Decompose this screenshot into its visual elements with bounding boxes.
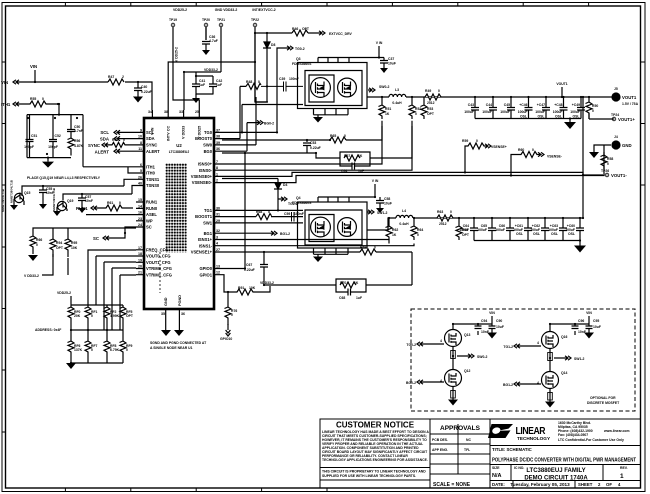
wire VSENSE1+ long xyxy=(222,251,360,253)
wire Q4 top pins to VIN bus xyxy=(318,197,375,202)
wire R66/R94/R95 top bus xyxy=(33,228,136,235)
wire BG1 row xyxy=(222,232,270,234)
resistor RF6 xyxy=(68,339,75,357)
svg-text:17: 17 xyxy=(138,246,142,250)
svg-text:0: 0 xyxy=(438,89,440,93)
svg-text:C53: C53 xyxy=(310,141,316,145)
test point TP21 xyxy=(217,18,225,27)
svg-text:C39: C39 xyxy=(279,77,285,81)
ground J4 xyxy=(589,152,599,158)
svg-text:4.7uF: 4.7uF xyxy=(209,39,218,43)
test point TP19 xyxy=(169,18,177,27)
svg-text:Q13: Q13 xyxy=(464,333,471,337)
svg-text:0: 0 xyxy=(42,97,44,101)
svg-text:TP26: TP26 xyxy=(601,169,609,173)
U2 bottom pin names (vertical) xyxy=(164,295,182,306)
svg-text:V DD33-2: V DD33-2 xyxy=(24,274,39,278)
wire TSNS lines xyxy=(124,167,136,194)
zone tick marks bottom xyxy=(65,488,327,492)
resistor R60 + arrow VSENSE- xyxy=(511,152,544,177)
svg-text:10uF: 10uF xyxy=(384,202,392,206)
ground below C40 xyxy=(133,97,143,103)
svg-text:ISNS0+: ISNS0+ xyxy=(198,162,213,167)
svg-text:PLACE Q15,Q19 NEAR L4,L3 RESPE: PLACE Q15,Q19 NEAR L4,L3 RESPECTIVELY xyxy=(27,176,101,180)
svg-text:REV.: REV. xyxy=(620,466,628,470)
svg-text:0: 0 xyxy=(532,148,534,152)
ground cap bank ch1 xyxy=(579,241,581,246)
wire Q16 drain to VIN xyxy=(550,324,575,332)
net arrow TG1-2 (opt) xyxy=(514,344,521,348)
svg-text:Q4: Q4 xyxy=(296,196,301,200)
resistor R55 xyxy=(20,101,59,107)
resistor RF5 xyxy=(120,305,127,323)
U2 exposed pad dots xyxy=(166,164,188,253)
svg-text:2512: 2512 xyxy=(427,101,435,105)
wire C41/C42 tie xyxy=(196,76,213,98)
svg-text:J5: J5 xyxy=(614,87,618,91)
svg-text:0: 0 xyxy=(374,246,376,250)
customer notice text xyxy=(322,421,429,479)
svg-text:1K: 1K xyxy=(392,233,397,237)
power block Q4 outline xyxy=(298,202,368,248)
svg-text:36: 36 xyxy=(216,147,220,151)
svg-text:BG0-2: BG0-2 xyxy=(264,122,274,126)
svg-text:1uF: 1uF xyxy=(199,83,205,87)
wire D4 feed xyxy=(222,178,278,180)
resistor R58 xyxy=(601,152,608,169)
wire R65 to R51 xyxy=(307,126,382,140)
U2 left pin stubs xyxy=(136,132,144,274)
net arrow SW0-2 xyxy=(368,88,375,92)
wire BG0 row xyxy=(222,123,256,152)
svg-text:R55: R55 xyxy=(30,97,36,101)
svg-text:GPIO10: GPIO10 xyxy=(220,337,232,341)
svg-text:www.linear.com: www.linear.com xyxy=(603,429,630,433)
wire Q3 top pins to VIN bus xyxy=(318,58,384,63)
svg-text:0: 0 xyxy=(476,139,478,143)
wire VDD33 feed xyxy=(184,72,221,110)
svg-text:SW1-2: SW1-2 xyxy=(377,211,387,215)
logo cell bottom xyxy=(490,445,641,447)
svg-text:OSL: OSL xyxy=(538,115,545,119)
wire Q13 drain to VIN xyxy=(453,324,478,330)
ground below C95 xyxy=(584,333,594,339)
ground below C36 xyxy=(202,50,210,55)
wire D8 bottom junction xyxy=(255,56,267,102)
wire ASEL stub xyxy=(86,214,136,216)
ground cap bank ch0 xyxy=(569,119,571,123)
power block Q4 inner frame xyxy=(305,210,362,245)
svg-text:4: 4 xyxy=(440,379,442,383)
svg-text:R60: R60 xyxy=(518,148,524,152)
net arrow BG1-2 xyxy=(270,231,277,235)
svg-text:VDD25-2: VDD25-2 xyxy=(57,291,71,295)
svg-text:C43: C43 xyxy=(468,103,474,107)
svg-text:R58: R58 xyxy=(607,157,613,161)
svg-text:R53: R53 xyxy=(427,107,433,111)
mosfet Q4a xyxy=(311,217,331,237)
svg-text:TG0-2: TG0-2 xyxy=(406,343,416,347)
svg-text:10: 10 xyxy=(138,135,142,139)
wire Q15/C55 tie to TSNS xyxy=(22,186,132,200)
capacitor C96 xyxy=(572,324,590,335)
svg-text:SW0-2: SW0-2 xyxy=(477,355,487,359)
U2 top pin numbers xyxy=(148,110,199,114)
wire VSENSE pair lines xyxy=(222,172,604,182)
resistor R53 xyxy=(421,97,428,119)
svg-text:J4: J4 xyxy=(614,135,618,139)
svg-text:100uF: 100uF xyxy=(464,110,474,114)
resistor R47 xyxy=(108,79,124,85)
svg-text:137K: 137K xyxy=(74,348,83,352)
wire Q3 bottom pins to bus xyxy=(314,109,349,118)
svg-text:LTC3880EUJ FAMILY: LTC3880EUJ FAMILY xyxy=(526,468,585,474)
svg-text:INT/EXTVCC-2: INT/EXTVCC-2 xyxy=(252,8,275,12)
wire address bottom bus + ground xyxy=(71,357,123,363)
svg-text:MMBT3904LT1B: MMBT3904LT1B xyxy=(10,179,14,203)
svg-text:N/A: N/A xyxy=(492,473,502,479)
capacitor C67 xyxy=(260,252,268,285)
svg-text:VTRIM1_CFG: VTRIM1_CFG xyxy=(146,272,172,277)
cap bank ch0 bottom bus xyxy=(475,118,581,120)
svg-text:L4: L4 xyxy=(402,209,406,213)
svg-text:1uF: 1uF xyxy=(358,169,364,173)
svg-text:U2: U2 xyxy=(176,143,182,148)
svg-text:1uF: 1uF xyxy=(216,83,222,87)
test point TP20 xyxy=(202,18,210,27)
mosfet Q12 xyxy=(445,370,462,387)
svg-text:VOUT1: VOUT1 xyxy=(622,95,637,100)
svg-text:0.22uF: 0.22uF xyxy=(244,268,255,272)
divider notice/approvals xyxy=(429,419,431,488)
resistor R65 xyxy=(330,137,346,143)
svg-text:10nF: 10nF xyxy=(578,330,586,334)
wire Q13 source to SW xyxy=(452,347,454,370)
svg-text:VSENSE1+: VSENSE1+ xyxy=(191,250,213,255)
svg-text:TP21: TP21 xyxy=(217,18,225,22)
svg-text:38: 38 xyxy=(164,110,168,114)
wire Q14 source to ground xyxy=(549,389,551,402)
U2 bottom pin stubs xyxy=(166,309,180,318)
junction dots rail ch1 xyxy=(388,217,584,242)
svg-text:36: 36 xyxy=(181,312,185,316)
svg-text:R94: R94 xyxy=(56,241,62,245)
wire TG0-2 to Q13 gate xyxy=(424,338,449,344)
svg-text:R56: R56 xyxy=(74,139,80,143)
svg-text:R46: R46 xyxy=(292,27,298,31)
resistor R69 xyxy=(360,249,376,255)
resistor R61 xyxy=(96,205,133,211)
wire ISNS1- to R64 xyxy=(222,244,414,246)
svg-text:Tuesday, February 05, 2013: Tuesday, February 05, 2013 xyxy=(510,482,570,487)
svg-text:SW1: SW1 xyxy=(203,221,213,226)
svg-text:WP: WP xyxy=(146,218,153,223)
capacitor C58 xyxy=(376,197,384,208)
svg-text:LTC3880EUJ: LTC3880EUJ xyxy=(169,150,190,154)
svg-text:14: 14 xyxy=(138,204,142,208)
resistor R70 xyxy=(336,279,366,292)
wire left pins SCL..ALERT arrows xyxy=(102,130,136,153)
svg-text:ADDRESS: 0x4F: ADDRESS: 0x4F xyxy=(35,328,61,332)
wire BG1-2 to Q14 gate xyxy=(521,383,541,385)
net arrow SW0-2 (opt) xyxy=(457,354,474,358)
capacitor C59 xyxy=(292,212,295,222)
svg-text:VIN: VIN xyxy=(586,311,592,315)
svg-text:100nF: 100nF xyxy=(294,212,304,216)
wire phase tie vertical xyxy=(582,97,584,219)
svg-text:0: 0 xyxy=(231,313,233,317)
wire inter-nest vertical xyxy=(244,153,246,269)
wire VOUT1- sense tap xyxy=(583,174,603,176)
title row bottom xyxy=(490,464,641,466)
inductor L3 xyxy=(389,94,406,97)
inductor L4 xyxy=(396,215,413,218)
svg-text:10uF: 10uF xyxy=(593,325,601,329)
svg-text:6: 6 xyxy=(140,163,142,167)
svg-text:R95: R95 xyxy=(71,241,77,245)
svg-text:0: 0 xyxy=(119,201,121,205)
svg-text:20: 20 xyxy=(138,265,142,269)
svg-text:0: 0 xyxy=(91,348,93,352)
svg-text:4: 4 xyxy=(440,339,442,343)
divider approvals/logo xyxy=(489,419,491,488)
svg-text:5: 5 xyxy=(140,169,142,173)
wire GPIO0/1 to R76/R91 xyxy=(222,269,245,293)
svg-text:4.7nF: 4.7nF xyxy=(74,129,83,133)
wire L4 to rail ch1 xyxy=(413,217,583,219)
svg-text:10nF: 10nF xyxy=(481,330,489,334)
svg-text:+C46: +C46 xyxy=(519,103,527,107)
svg-text:0: 0 xyxy=(607,162,609,166)
svg-text:0: 0 xyxy=(417,233,419,237)
svg-text:10uF: 10uF xyxy=(496,325,504,329)
svg-text:39: 39 xyxy=(216,141,220,145)
resistor R62 xyxy=(386,218,393,240)
ground U2 GND pin xyxy=(165,318,167,330)
svg-text:SYNC: SYNC xyxy=(88,143,100,148)
svg-text:GND: GND xyxy=(164,297,168,306)
svg-text:100uF: 100uF xyxy=(518,110,528,114)
capacitor C40 xyxy=(134,82,142,97)
svg-text:SW0-2: SW0-2 xyxy=(379,85,389,89)
zone tick marks right xyxy=(641,62,646,185)
capacitor C42 xyxy=(209,76,217,95)
svg-text:BG0: BG0 xyxy=(204,149,213,154)
svg-text:V IN: V IN xyxy=(376,41,383,45)
title block outline xyxy=(320,419,641,488)
wire Q4 bottom pins to bus xyxy=(314,248,349,257)
svg-text:C52: C52 xyxy=(55,134,61,138)
svg-text:23: 23 xyxy=(138,217,142,221)
wire R67/C64 to sense xyxy=(316,126,412,158)
resistor R95 xyxy=(65,235,72,257)
svg-text:1K: 1K xyxy=(385,112,390,116)
wire TP20 down xyxy=(205,27,207,40)
svg-text:1K: 1K xyxy=(358,154,363,158)
net arrow BG1-2 (opt) xyxy=(514,382,521,386)
wire BOOST1 row xyxy=(222,216,303,218)
svg-text:40: 40 xyxy=(138,182,142,186)
net arrow BG0-2 (opt) xyxy=(417,380,424,384)
wire L3 to rail xyxy=(406,96,615,98)
svg-text:ALERT: ALERT xyxy=(146,149,160,154)
resistor R49 xyxy=(425,89,441,105)
resistor RF8 xyxy=(104,339,111,357)
svg-text:34: 34 xyxy=(148,110,152,114)
svg-text:C58: C58 xyxy=(384,197,390,201)
size/rev dividers xyxy=(511,465,603,481)
svg-text:DEMO CIRCUIT 1740A: DEMO CIRCUIT 1740A xyxy=(524,476,588,482)
capacitor C39 xyxy=(261,82,303,92)
resistor RF0 xyxy=(68,305,75,323)
svg-text:OSL: OSL xyxy=(568,232,575,236)
resistor R66 xyxy=(30,232,37,254)
svg-text:V DD25-2: V DD25-2 xyxy=(175,47,179,62)
test point TP26 xyxy=(605,173,609,177)
wire Q16 source to SW xyxy=(549,349,551,372)
svg-text:+C47: +C47 xyxy=(537,103,545,107)
date/sheet divider xyxy=(513,481,575,489)
resistor R68 xyxy=(256,214,272,220)
svg-text:V DD33: V DD33 xyxy=(182,126,186,139)
svg-text:SW0: SW0 xyxy=(203,143,213,148)
svg-text:D4: D4 xyxy=(283,183,287,187)
svg-text:VTRIM0_CFG: VTRIM0_CFG xyxy=(146,266,172,271)
svg-text:OPT: OPT xyxy=(302,27,310,31)
mosfet Q16 xyxy=(542,332,559,349)
svg-text:100uF: 100uF xyxy=(570,110,580,114)
svg-text:13: 13 xyxy=(216,265,220,269)
svg-text:RUN1: RUN1 xyxy=(76,206,88,211)
resistor R67 xyxy=(340,152,370,166)
svg-text:Q12: Q12 xyxy=(464,369,471,373)
svg-text:33: 33 xyxy=(179,110,183,114)
zener D4 xyxy=(274,179,282,211)
svg-text:C94: C94 xyxy=(481,319,487,323)
svg-text:TG0-2: TG0-2 xyxy=(295,47,305,51)
net arrow VIN input xyxy=(13,80,20,84)
svg-text:0: 0 xyxy=(36,243,38,247)
ground Q3 xyxy=(313,117,323,123)
U2 top pin stubs xyxy=(152,110,199,118)
ground below C41 xyxy=(192,98,200,103)
capacitor C51 xyxy=(26,115,34,158)
svg-text:VOUT1-: VOUT1- xyxy=(611,173,627,178)
svg-text:2: 2 xyxy=(122,75,124,79)
net arrow TG0-2 xyxy=(284,46,293,50)
svg-text:V IN: V IN xyxy=(372,179,379,183)
svg-text:R59: R59 xyxy=(462,139,468,143)
svg-text:37: 37 xyxy=(216,128,220,132)
svg-text:0: 0 xyxy=(258,80,260,84)
svg-text:VSENSE0-: VSENSE0- xyxy=(192,180,213,185)
cap bank ch1 caps C64,C65,C66,C61,C62,C63,C60 xyxy=(470,218,584,241)
svg-text:R62: R62 xyxy=(392,228,398,232)
wire ISNS1+ to R62 xyxy=(222,240,389,244)
op IC U2 body xyxy=(144,118,214,309)
cap bank ch1 labels xyxy=(459,224,575,236)
svg-text:18: 18 xyxy=(138,252,142,256)
approvals rows xyxy=(430,424,490,474)
pin number labels discrete mosfets xyxy=(440,339,539,385)
svg-text:6.79K: 6.79K xyxy=(110,348,120,352)
resistor R59 + arrow VSENSE+ xyxy=(465,143,491,172)
svg-text:TSNS0: TSNS0 xyxy=(146,183,160,188)
svg-text:DATE:: DATE: xyxy=(492,482,505,487)
capacitor C50 xyxy=(67,115,75,137)
svg-text:TECHNOLOGY: TECHNOLOGY xyxy=(517,436,551,441)
capacitor C36 xyxy=(202,27,210,50)
zener D8 xyxy=(263,33,271,56)
svg-text:Q3: Q3 xyxy=(296,57,301,61)
svg-text:0: 0 xyxy=(344,134,346,138)
svg-text:29: 29 xyxy=(216,219,220,223)
mosfet Q13 xyxy=(445,330,462,347)
svg-text:APPROVALS: APPROVALS xyxy=(440,425,481,432)
svg-text:SCL: SCL xyxy=(100,130,109,135)
svg-text:TG1: TG1 xyxy=(204,208,213,213)
mosfet Q3a xyxy=(311,78,331,98)
capacitor C37 xyxy=(380,58,388,69)
svg-text:APP ENG.: APP ENG. xyxy=(432,448,448,452)
svg-text:RUN1: RUN1 xyxy=(146,200,158,205)
svg-text:OSL: OSL xyxy=(573,115,580,119)
svg-text:SC: SC xyxy=(146,225,152,230)
resistor R94 xyxy=(50,235,57,257)
svg-text:2: 2 xyxy=(216,179,218,183)
wire ITH top bus xyxy=(27,104,136,167)
ground U2 PGND pin xyxy=(178,318,180,330)
svg-text:R67: R67 xyxy=(344,154,350,158)
svg-text:SW1-2: SW1-2 xyxy=(574,357,584,361)
resistor R91 xyxy=(232,289,258,295)
wire VDD25-2 to address resistors xyxy=(71,296,123,305)
svg-text:ISNS0-: ISNS0- xyxy=(199,168,213,173)
wire VDD33-2 to R94/R95 xyxy=(42,254,68,275)
connector J5 xyxy=(611,92,620,101)
svg-text:9: 9 xyxy=(140,128,142,132)
svg-text:1.5V / 75A: 1.5V / 75A xyxy=(622,102,639,106)
svg-text:BG1: BG1 xyxy=(204,231,213,236)
svg-text:16: 16 xyxy=(138,211,142,215)
net arrow TG1-2 xyxy=(278,197,287,201)
svg-text:VSENSE-: VSENSE- xyxy=(547,155,562,159)
svg-text:1: 1 xyxy=(620,473,624,480)
resistor R63 xyxy=(437,210,453,226)
svg-text:SHEET: SHEET xyxy=(578,482,593,487)
svg-text:PCB DES.: PCB DES. xyxy=(432,438,448,442)
transistor Q15 xyxy=(14,190,24,205)
svg-text:BG1-2: BG1-2 xyxy=(503,383,513,387)
notice sub-dividers xyxy=(320,468,430,481)
svg-text:IC NO.: IC NO. xyxy=(514,466,524,470)
svg-text:OSL: OSL xyxy=(533,232,540,236)
svg-text:R48: R48 xyxy=(246,80,252,84)
connector J4 xyxy=(611,140,620,149)
wire SW node out of Q3 xyxy=(367,96,389,98)
svg-text:0.22uF: 0.22uF xyxy=(310,146,321,150)
svg-text:R63: R63 xyxy=(437,210,443,214)
svg-text:SCALE = NONE: SCALE = NONE xyxy=(433,482,471,488)
ground Q4 xyxy=(313,257,323,263)
capacitor C90 xyxy=(489,324,496,333)
svg-text:VSENSE+: VSENSE+ xyxy=(491,145,507,149)
svg-text:RUN0: RUN0 xyxy=(146,206,158,211)
svg-text:VOUT1+: VOUT1+ xyxy=(618,117,635,122)
svg-text:10K: 10K xyxy=(249,286,256,290)
svg-text:OPT: OPT xyxy=(427,112,435,116)
svg-text:ITH1: ITH1 xyxy=(1,102,11,107)
